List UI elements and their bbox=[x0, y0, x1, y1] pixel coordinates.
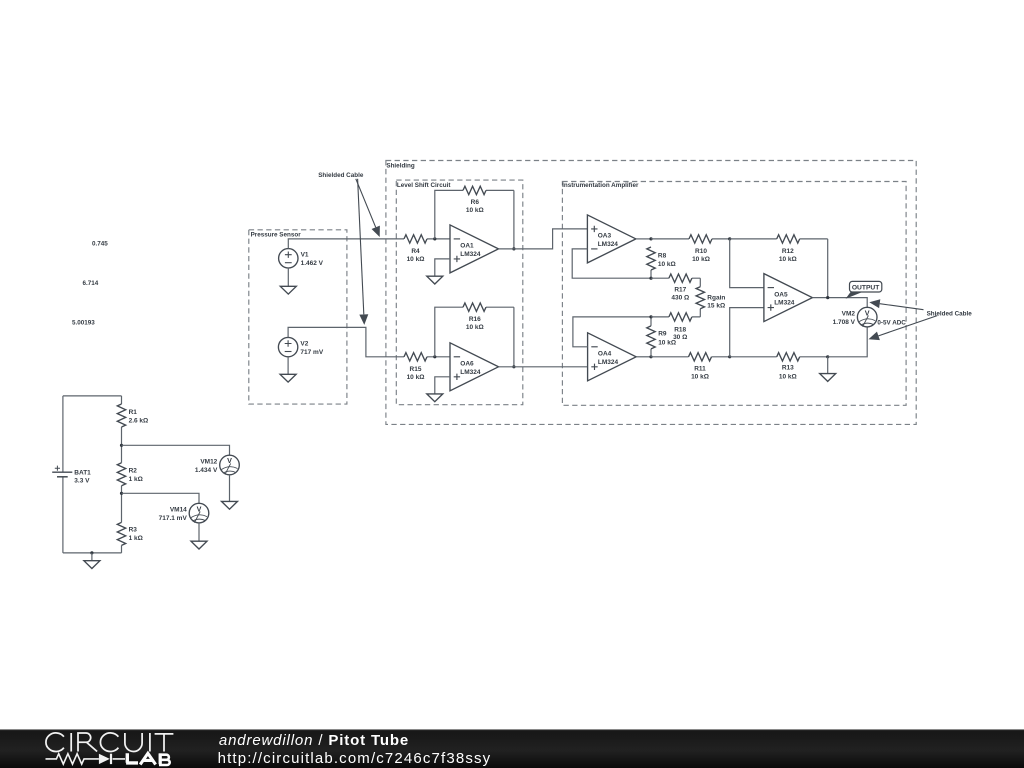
wire OA1 output to OA3 bbox=[499, 229, 588, 249]
svg-text:10 kΩ: 10 kΩ bbox=[779, 374, 797, 381]
junction R9-R18 bbox=[649, 315, 652, 318]
resistor R15 bbox=[404, 353, 450, 381]
svg-text:LM324: LM324 bbox=[774, 300, 795, 307]
wire R16 to OA6 output bbox=[513, 307, 515, 367]
svg-text:andrewdillon / Pitot Tube: andrewdillon / Pitot Tube bbox=[219, 732, 409, 749]
wire R17 to Rgain bbox=[699, 278, 701, 287]
ground battery bbox=[84, 553, 100, 569]
resistor R6 bbox=[463, 186, 514, 214]
svg-text:717 mV: 717 mV bbox=[300, 349, 323, 356]
svg-text:LM324: LM324 bbox=[460, 251, 481, 258]
svg-text:1.462 V: 1.462 V bbox=[301, 260, 324, 267]
svg-text:717.1 mV: 717.1 mV bbox=[159, 515, 188, 522]
svg-text:OA5: OA5 bbox=[774, 291, 788, 298]
svg-text:10 kΩ: 10 kΩ bbox=[658, 261, 676, 268]
svg-text:R16: R16 bbox=[469, 316, 481, 323]
svg-text:R17: R17 bbox=[674, 286, 686, 293]
svg-text:R6: R6 bbox=[471, 199, 480, 206]
svg-text:VM12: VM12 bbox=[200, 458, 217, 465]
svg-text:1.434 V: 1.434 V bbox=[195, 467, 218, 474]
svg-text:VM2: VM2 bbox=[842, 311, 856, 318]
wire to OA5 non-inverting input bbox=[730, 308, 764, 357]
logo LAB bbox=[126, 753, 170, 765]
svg-text:10 kΩ: 10 kΩ bbox=[691, 374, 709, 381]
voltmeter VM12 bbox=[195, 455, 239, 475]
junction OA3 output-R8 bbox=[649, 237, 652, 240]
junction R1-R2 bbox=[120, 444, 123, 447]
svg-text:0.745: 0.745 bbox=[92, 240, 108, 247]
op-amp OA5 bbox=[764, 274, 813, 322]
wire OA6 output to OA4 bbox=[499, 366, 588, 368]
junction R2-R3 bbox=[120, 492, 123, 495]
resistor R18 bbox=[651, 313, 700, 341]
wire OA3 output bbox=[636, 238, 651, 240]
junction OA1 output bbox=[512, 247, 515, 250]
svg-text:R1: R1 bbox=[129, 409, 138, 416]
svg-text:3.3 V: 3.3 V bbox=[74, 478, 90, 485]
svg-text:V1: V1 bbox=[301, 252, 309, 259]
region box Level Shift Circuit bbox=[396, 180, 523, 405]
wire VM2 bottom bbox=[828, 327, 868, 357]
wire to R6 bbox=[435, 190, 463, 239]
svg-text:OA3: OA3 bbox=[598, 233, 612, 240]
resistor R9 bbox=[647, 317, 676, 357]
svg-text:V: V bbox=[865, 308, 870, 317]
junction OA5 output bbox=[826, 296, 829, 299]
svg-text:R10: R10 bbox=[695, 248, 707, 255]
junction R4-OA1 inverting input bbox=[433, 237, 436, 240]
svg-text:V2: V2 bbox=[300, 341, 308, 348]
svg-text:30 Ω: 30 Ω bbox=[673, 334, 687, 341]
svg-text:R2: R2 bbox=[129, 468, 138, 475]
wire to R16 bbox=[435, 307, 463, 357]
svg-text:Pressure Sensor: Pressure Sensor bbox=[251, 232, 302, 239]
junction R11-R13 bbox=[728, 355, 731, 358]
svg-text:Shielding: Shielding bbox=[386, 163, 414, 170]
svg-text:10 kΩ: 10 kΩ bbox=[779, 256, 797, 263]
resistor R12 bbox=[730, 235, 828, 263]
footer bar background bbox=[0, 729, 1024, 768]
svg-text:Level Shift Circuit: Level Shift Circuit bbox=[397, 182, 451, 189]
wire V1 to R4 bbox=[288, 239, 404, 249]
svg-text:0-5V ADC: 0-5V ADC bbox=[877, 319, 906, 326]
wire OA5 output to VM2 bbox=[812, 298, 867, 308]
resistor R2 bbox=[117, 445, 143, 493]
resistor R17 bbox=[651, 274, 700, 302]
voltmeter VM14 bbox=[159, 503, 209, 523]
svg-text:V: V bbox=[227, 456, 232, 465]
svg-text:10 kΩ: 10 kΩ bbox=[407, 374, 425, 381]
svg-text:R9: R9 bbox=[658, 330, 667, 337]
svg-text:1 kΩ: 1 kΩ bbox=[129, 535, 143, 542]
svg-text:R15: R15 bbox=[410, 366, 422, 373]
wire OA6 non-inverting to ground bbox=[435, 377, 450, 394]
op-amp OA3 bbox=[587, 215, 636, 263]
svg-text:10 kΩ: 10 kΩ bbox=[466, 324, 484, 331]
svg-text:LM324: LM324 bbox=[460, 369, 481, 376]
flag OUTPUT bbox=[846, 281, 882, 298]
wire to VM12 bbox=[122, 445, 230, 455]
ground VM12 bbox=[222, 475, 238, 509]
ground OA6 bbox=[427, 394, 443, 402]
resistor R4 bbox=[404, 235, 450, 264]
svg-text:R11: R11 bbox=[694, 365, 706, 372]
ground V2 bbox=[280, 357, 296, 382]
wire battery bottom bbox=[63, 552, 122, 554]
wire to VM14 bbox=[122, 493, 200, 503]
wire battery left lower bbox=[62, 477, 64, 553]
region box Pressure Sensor bbox=[249, 230, 347, 404]
resistor Rgain bbox=[696, 287, 725, 317]
junction R10-R12 bbox=[728, 237, 731, 240]
voltage source V1 bbox=[279, 249, 324, 268]
svg-text:Shielded Cable: Shielded Cable bbox=[318, 172, 364, 179]
wire R6 to OA1 output bbox=[513, 190, 515, 249]
svg-text:10 kΩ: 10 kΩ bbox=[692, 256, 710, 263]
resistor R13 bbox=[730, 353, 828, 381]
ground VM14 bbox=[191, 523, 207, 549]
svg-text:VM14: VM14 bbox=[170, 507, 187, 514]
svg-text:R4: R4 bbox=[411, 248, 420, 255]
svg-text:2.6 kΩ: 2.6 kΩ bbox=[129, 418, 149, 425]
svg-text:R18: R18 bbox=[674, 326, 686, 333]
wire to OA5 inverting input bbox=[730, 239, 764, 288]
svg-text:OA6: OA6 bbox=[460, 361, 474, 368]
wire OA1 non-inverting to ground bbox=[435, 259, 450, 276]
svg-text:R13: R13 bbox=[782, 365, 794, 372]
svg-text:R8: R8 bbox=[658, 252, 667, 259]
op-amp OA1 bbox=[450, 225, 499, 273]
wire battery left upper bbox=[62, 396, 64, 472]
resistor R3 bbox=[117, 493, 143, 553]
region box Instrumentation Amplifier bbox=[562, 182, 906, 406]
wire V2 to R15 bbox=[288, 327, 404, 356]
svg-text:15 kΩ: 15 kΩ bbox=[707, 303, 725, 310]
ground V1 bbox=[280, 268, 296, 294]
resistor R11 bbox=[651, 353, 730, 381]
svg-text:http://circuitlab.com/c7246c7f: http://circuitlab.com/c7246c7f38ssy bbox=[218, 750, 492, 767]
junction OA6 output bbox=[512, 365, 515, 368]
junction R13 ground bbox=[826, 355, 829, 358]
logo resistor-diode glyph bbox=[46, 754, 126, 764]
svg-text:5.00193: 5.00193 bbox=[72, 319, 95, 326]
battery BAT1 bbox=[52, 466, 91, 485]
voltmeter VM2 bbox=[833, 307, 877, 327]
svg-text:1 kΩ: 1 kΩ bbox=[129, 476, 143, 483]
svg-text:BAT1: BAT1 bbox=[74, 470, 91, 477]
svg-text:Rgain: Rgain bbox=[707, 295, 725, 302]
wire battery top bbox=[63, 395, 122, 397]
svg-text:OUTPUT: OUTPUT bbox=[852, 285, 880, 292]
wire OA3 inverting feedback bbox=[572, 249, 651, 278]
ground OA1 bbox=[427, 276, 443, 284]
annotation arrow to VM2 top wire bbox=[869, 299, 923, 309]
resistor R8 bbox=[647, 247, 676, 278]
wire R12 to OA5 output bbox=[827, 239, 829, 298]
svg-text:LM324: LM324 bbox=[598, 241, 619, 248]
voltage source V2 bbox=[278, 337, 323, 356]
svg-text:OA1: OA1 bbox=[460, 243, 474, 250]
annotation arrow to lower cable bbox=[358, 179, 369, 325]
svg-text:V: V bbox=[197, 504, 202, 513]
op-amp OA4 bbox=[588, 333, 637, 381]
svg-text:1.708 V: 1.708 V bbox=[833, 319, 856, 326]
resistor R10 bbox=[651, 235, 730, 263]
svg-text:10 kΩ: 10 kΩ bbox=[466, 207, 484, 214]
annotation arrow to VM2 bottom wire bbox=[869, 316, 938, 341]
svg-text:R12: R12 bbox=[782, 248, 794, 255]
svg-text:10 kΩ: 10 kΩ bbox=[407, 256, 425, 263]
annotation arrow to upper cable bbox=[356, 179, 380, 237]
ground R13 bbox=[820, 357, 836, 382]
svg-text:6.714: 6.714 bbox=[83, 280, 99, 287]
logo CIRCUIT wordmark bbox=[46, 733, 173, 752]
wire OA4 inverting feedback bbox=[573, 317, 651, 347]
junction R15-OA6 inverting input bbox=[433, 355, 436, 358]
op-amp OA6 bbox=[450, 343, 499, 391]
junction R8-R17 bbox=[649, 277, 652, 280]
svg-text:LM324: LM324 bbox=[598, 359, 619, 366]
region box Shielding bbox=[386, 161, 916, 425]
svg-text:R3: R3 bbox=[129, 527, 138, 534]
svg-text:OA4: OA4 bbox=[598, 351, 612, 358]
resistor R16 bbox=[463, 303, 514, 331]
svg-text:Instrumentation Amplifier: Instrumentation Amplifier bbox=[562, 182, 639, 189]
resistor R1 bbox=[117, 396, 148, 445]
junction OA4 output-R9 bbox=[649, 355, 652, 358]
svg-text:430 Ω: 430 Ω bbox=[671, 295, 689, 302]
wire OA4 output bbox=[636, 356, 651, 358]
junction battery ground bbox=[90, 551, 93, 554]
